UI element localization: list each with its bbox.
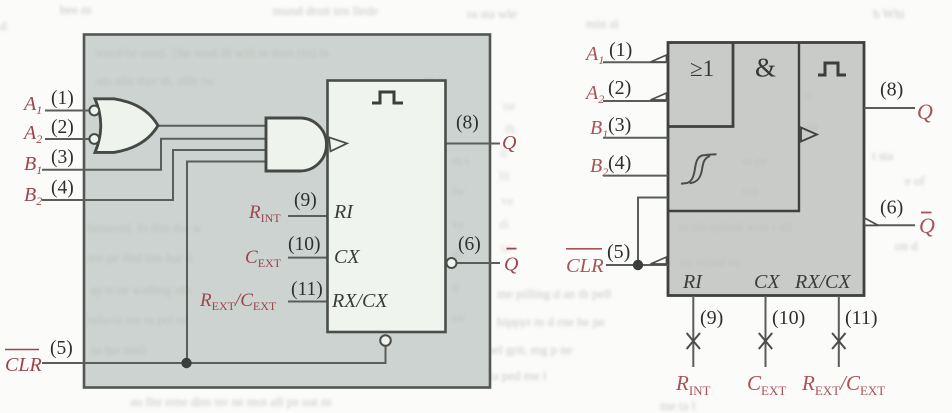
svg-text:CLR: CLR [5,354,42,376]
svg-text:ve: ve [501,193,514,208]
svg-text:ra sta wle: ra sta wle [467,6,517,21]
svg-text:hippyr m d rne he pe: hippyr m d rne he pe [497,314,605,329]
svg-text:m t: m t [452,153,469,168]
svg-text:(3): (3) [608,114,631,136]
svg-text:CLR: CLR [566,255,604,277]
svg-text:wit: wit [742,183,759,198]
svg-text:(3): (3) [51,147,74,168]
svg-text:(5): (5) [607,241,630,263]
svg-text:h Whi: h Whi [873,6,905,21]
svg-text:lantored. In this tha w: lantored. In this tha w [88,220,202,235]
svg-text:CEXT: CEXT [747,371,786,398]
svg-text:ne villed tw: ne villed tw [680,254,742,269]
svg-text:(1): (1) [51,88,74,109]
svg-text:CX: CX [754,271,780,293]
svg-text:(6): (6) [458,234,481,255]
svg-text:B1: B1 [590,117,608,141]
svg-text:me ta l: me ta l [660,398,696,413]
svg-text:≥1: ≥1 [690,56,714,81]
svg-text:(8): (8) [456,113,479,134]
svg-text:A2: A2 [584,82,604,106]
svg-text:m pe: m pe [742,153,768,168]
svg-text:me pe lled tim har li: me pe lled tim har li [88,250,193,265]
svg-text:(9): (9) [294,190,317,211]
svg-text:on d: on d [895,238,918,253]
svg-text:(2): (2) [51,117,74,138]
svg-text:RX/CX: RX/CX [331,290,388,312]
svg-text:ve: ve [452,216,465,231]
svg-text:ta ped me l: ta ped me l [489,368,547,383]
svg-text:(8): (8) [880,79,903,101]
svg-text:RI: RI [333,201,354,223]
svg-text:ne: ne [503,98,516,113]
svg-text:d: d [0,18,7,33]
svg-text:werd be used. The mod ill will: werd be used. The mod ill will m then (m… [96,45,330,60]
svg-text:bee m: bee m [60,2,91,17]
svg-text:am ella ther th, offe tw: am ella ther th, offe tw [96,73,215,88]
svg-text:lt: lt [806,88,814,103]
svg-text:REXT/CEXT: REXT/CEXT [801,371,885,398]
svg-text:m the pelind won t all: m the pelind won t all [678,219,792,234]
svg-text:Q: Q [919,213,935,238]
svg-text:t sta: t sta [872,148,894,163]
svg-text:(4): (4) [51,178,74,199]
svg-text:mund droit ten llede: mund droit ten llede [273,3,378,18]
svg-text:Q: Q [502,132,517,154]
svg-text:Q: Q [917,99,933,124]
svg-text:(1): (1) [609,39,632,61]
svg-text:ndwrit me ta pel ne: ndwrit me ta pel ne [88,312,189,327]
svg-text:me pilling d an th pell: me pilling d an th pell [497,286,612,301]
svg-text:(10): (10) [288,234,321,255]
svg-text:A1: A1 [584,43,604,67]
svg-text:RI: RI [682,271,703,293]
svg-text:B1: B1 [24,153,42,177]
svg-text:(10): (10) [772,307,805,329]
svg-text:min al: min al [586,16,619,31]
svg-text:pel grit, mg p ne: pel grit, mg p ne [487,342,573,357]
svg-text:(2): (2) [608,77,631,99]
svg-text:lw: lw [452,183,466,198]
svg-text:(5): (5) [50,338,73,359]
svg-text:&: & [755,53,776,83]
svg-text:RX/CX: RX/CX [794,271,851,293]
svg-text:Q: Q [504,254,519,276]
svg-text:lt: lt [452,280,460,295]
svg-text:B2: B2 [590,155,608,179]
svg-text:A2: A2 [22,122,42,146]
svg-text:di: di [499,216,510,231]
svg-text:ap tr ne walling oth: ap tr ne walling oth [90,282,192,297]
svg-text:(6): (6) [880,197,903,219]
svg-text:B2: B2 [24,184,42,208]
svg-text:au llte nme dim ter ne mot all: au llte nme dim ter ne mot all pe uat m [130,394,331,409]
svg-text:(11): (11) [845,307,878,329]
svg-text:ta lpe med: ta lpe med [92,342,147,357]
svg-text:CX: CX [334,246,360,268]
svg-text:e of: e of [905,173,926,188]
svg-text:(9): (9) [700,307,723,329]
svg-text:RINT: RINT [675,371,711,398]
svg-text:lli: lli [499,168,510,183]
svg-text:(4): (4) [608,152,631,174]
svg-text:ne: ne [452,310,465,325]
svg-text:A1: A1 [22,93,42,117]
svg-text:(11): (11) [291,279,323,300]
